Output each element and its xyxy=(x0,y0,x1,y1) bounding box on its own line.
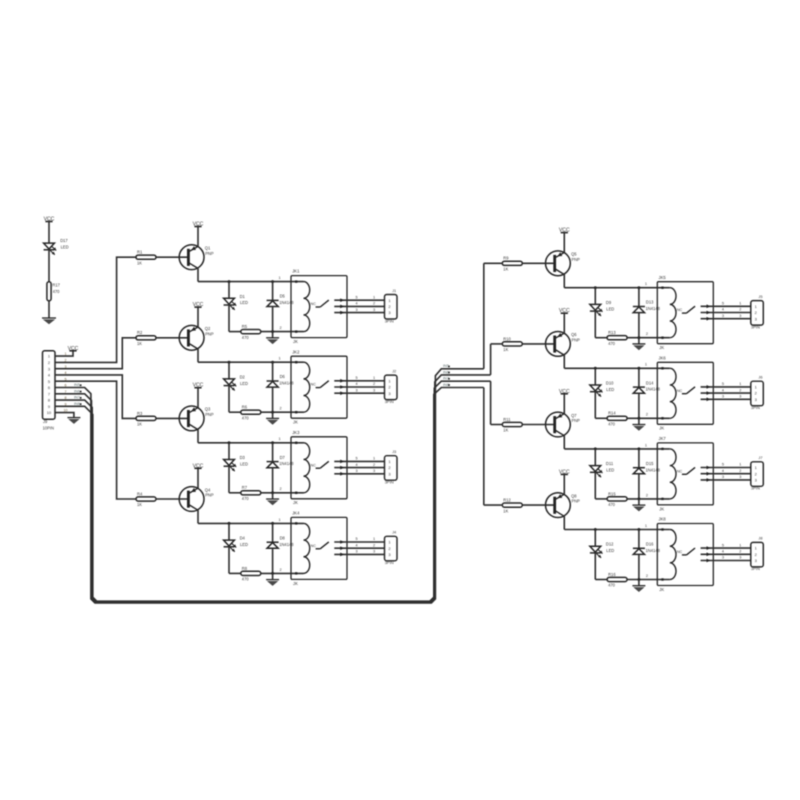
transistor Q3 xyxy=(179,406,204,431)
ground xyxy=(638,580,640,586)
LED D12 xyxy=(594,530,596,547)
wire IN4 xyxy=(55,381,137,499)
resistor R16 xyxy=(595,579,607,581)
relay switch JK3 xyxy=(316,467,321,469)
svg-text:R9: R9 xyxy=(503,256,509,261)
ground xyxy=(272,493,274,499)
wire IN7 bus xyxy=(55,381,491,602)
svg-text:2: 2 xyxy=(280,487,282,491)
wire xyxy=(197,468,199,488)
wire contact xyxy=(701,318,751,320)
svg-text:3: 3 xyxy=(739,395,741,399)
svg-text:PNP: PNP xyxy=(205,251,214,256)
svg-text:2: 2 xyxy=(280,407,282,411)
svg-text:IN5: IN5 xyxy=(443,364,449,368)
wire xyxy=(197,227,199,247)
relay coil JK7 xyxy=(670,449,676,499)
svg-text:470: 470 xyxy=(608,422,616,427)
svg-text:R17: R17 xyxy=(52,282,60,287)
relay coil JK5 xyxy=(670,288,676,338)
pin xyxy=(661,417,663,419)
ground xyxy=(272,412,274,418)
svg-text:1K: 1K xyxy=(137,341,142,346)
svg-text:4: 4 xyxy=(356,302,358,306)
connector J3 xyxy=(385,456,398,481)
node xyxy=(637,417,640,420)
wire contact xyxy=(701,386,751,388)
node xyxy=(637,447,640,450)
svg-text:JK: JK xyxy=(293,500,298,505)
wire xyxy=(156,498,188,500)
wire xyxy=(261,331,304,333)
diode D15 xyxy=(638,449,640,468)
svg-text:3: 3 xyxy=(373,388,375,392)
ground xyxy=(638,338,640,344)
svg-text:1K: 1K xyxy=(503,267,508,272)
svg-text:1K: 1K xyxy=(503,428,508,433)
svg-text:NC: NC xyxy=(311,463,317,467)
svg-text:J9: J9 xyxy=(43,419,48,424)
svg-text:2: 2 xyxy=(739,308,741,312)
svg-text:J2: J2 xyxy=(392,368,396,373)
relay switch JK7 xyxy=(682,473,687,475)
svg-text:3PIN: 3PIN xyxy=(385,318,394,323)
svg-text:J1: J1 xyxy=(392,288,396,293)
svg-text:Q3: Q3 xyxy=(205,407,211,412)
node xyxy=(271,361,274,364)
wire IN7 xyxy=(490,381,492,424)
relay coil JK8 xyxy=(670,530,676,580)
wire xyxy=(48,301,50,318)
svg-text:PNP: PNP xyxy=(572,257,581,262)
svg-text:LED: LED xyxy=(240,542,248,547)
svg-text:R5: R5 xyxy=(242,324,248,329)
pin xyxy=(661,337,663,339)
wire VCC xyxy=(55,351,73,356)
pin xyxy=(661,498,663,500)
relay switch JK1 xyxy=(316,306,321,308)
pin xyxy=(295,361,297,363)
svg-text:J6: J6 xyxy=(758,375,762,380)
svg-text:470: 470 xyxy=(242,335,250,340)
diode D8 xyxy=(272,523,274,542)
wire contact xyxy=(334,473,384,475)
svg-text:JK1: JK1 xyxy=(292,269,300,274)
svg-text:IN8: IN8 xyxy=(443,383,449,387)
svg-text:NC: NC xyxy=(677,308,683,312)
wire contact xyxy=(701,312,751,314)
svg-text:R10: R10 xyxy=(503,336,511,341)
svg-text:R4: R4 xyxy=(137,491,143,496)
svg-text:2: 2 xyxy=(373,302,375,306)
svg-text:5: 5 xyxy=(356,537,358,541)
connector J6 xyxy=(751,381,764,406)
pin xyxy=(295,572,297,574)
svg-text:1N4148: 1N4148 xyxy=(646,467,661,472)
LED D2 xyxy=(228,362,230,379)
wire xyxy=(563,516,565,529)
connector J7 xyxy=(751,462,764,487)
svg-text:D2: D2 xyxy=(240,374,246,379)
diode D7 xyxy=(272,443,274,462)
connector J1 xyxy=(385,295,398,320)
wire contact xyxy=(701,560,751,562)
svg-text:LED: LED xyxy=(240,381,248,386)
svg-text:LED: LED xyxy=(606,468,614,473)
svg-text:1: 1 xyxy=(645,443,647,447)
pin xyxy=(661,287,663,289)
svg-text:R11: R11 xyxy=(503,417,511,422)
svg-text:2: 2 xyxy=(646,413,648,417)
svg-text:R16: R16 xyxy=(608,572,616,577)
ground xyxy=(67,417,80,419)
wire IN5 bus xyxy=(55,369,484,603)
node xyxy=(594,528,597,531)
svg-text:2: 2 xyxy=(646,493,648,497)
wire xyxy=(563,436,565,449)
resistor R7 xyxy=(229,492,241,494)
svg-text:R12: R12 xyxy=(503,498,511,503)
svg-text:D1: D1 xyxy=(240,294,246,299)
node xyxy=(271,441,274,444)
svg-text:4: 4 xyxy=(722,308,724,312)
svg-text:1: 1 xyxy=(739,382,741,386)
wire rail xyxy=(198,281,304,283)
node xyxy=(637,497,640,500)
node xyxy=(228,361,231,364)
svg-text:3: 3 xyxy=(739,314,741,318)
wire xyxy=(563,275,565,288)
connector J4 xyxy=(385,536,398,561)
relay JK8 xyxy=(657,524,713,586)
resistor R4 xyxy=(136,497,156,501)
svg-text:3PIN: 3PIN xyxy=(751,566,760,571)
wire xyxy=(197,307,199,327)
svg-text:IN6: IN6 xyxy=(74,389,80,393)
svg-text:Q8: Q8 xyxy=(571,493,577,498)
svg-text:3: 3 xyxy=(373,550,375,554)
svg-text:3PIN: 3PIN xyxy=(751,324,760,329)
ground xyxy=(272,573,274,579)
wire IN1 xyxy=(55,257,137,362)
svg-text:D17: D17 xyxy=(60,238,68,243)
diode D16 xyxy=(638,530,640,549)
wire xyxy=(197,388,199,408)
wire contact xyxy=(701,392,751,394)
svg-text:D7: D7 xyxy=(280,455,286,460)
svg-text:Q6: Q6 xyxy=(571,332,577,337)
svg-text:1: 1 xyxy=(645,524,647,528)
svg-text:NC: NC xyxy=(677,389,683,393)
pin xyxy=(661,578,663,580)
svg-text:1K: 1K xyxy=(137,422,142,427)
svg-text:3PIN: 3PIN xyxy=(751,405,760,410)
svg-text:Q1: Q1 xyxy=(205,246,211,251)
wire xyxy=(48,222,50,244)
svg-text:3: 3 xyxy=(356,388,358,392)
node xyxy=(228,280,231,283)
svg-text:3: 3 xyxy=(356,308,358,312)
svg-text:R14: R14 xyxy=(608,411,616,416)
svg-text:J8: J8 xyxy=(758,536,762,541)
wire contact xyxy=(701,547,751,549)
svg-text:10PIN: 10PIN xyxy=(43,426,54,431)
svg-text:5: 5 xyxy=(722,543,724,547)
svg-text:5: 5 xyxy=(48,379,50,384)
svg-text:3PIN: 3PIN xyxy=(385,480,394,485)
wire contact xyxy=(334,460,384,462)
svg-text:R3: R3 xyxy=(137,411,143,416)
svg-text:LED: LED xyxy=(240,300,248,305)
node xyxy=(228,522,231,525)
wire xyxy=(627,337,670,339)
wire contact xyxy=(701,305,751,307)
node xyxy=(594,447,597,450)
resistor R2 xyxy=(136,336,156,340)
svg-text:4: 4 xyxy=(722,469,724,473)
svg-text:R1: R1 xyxy=(137,250,143,255)
svg-text:3: 3 xyxy=(739,475,741,479)
svg-text:JK5: JK5 xyxy=(659,275,667,280)
svg-text:1N4148: 1N4148 xyxy=(646,387,661,392)
wire contact xyxy=(701,473,751,475)
wire xyxy=(197,510,199,523)
transistor Q1 xyxy=(179,245,204,270)
svg-text:1K: 1K xyxy=(503,347,508,352)
node xyxy=(271,522,274,525)
wire xyxy=(197,430,199,443)
relay coil JK1 xyxy=(304,282,310,332)
node xyxy=(637,367,640,370)
svg-text:PNP: PNP xyxy=(572,338,581,343)
svg-text:IN7: IN7 xyxy=(74,396,80,400)
resistor R5 xyxy=(229,331,241,333)
resistor R15 xyxy=(595,498,607,500)
svg-text:470: 470 xyxy=(242,496,250,501)
wire IN6 xyxy=(490,344,492,375)
svg-text:1K: 1K xyxy=(137,502,142,507)
svg-text:IN6: IN6 xyxy=(443,370,449,374)
svg-text:3: 3 xyxy=(739,556,741,560)
diode D13 xyxy=(638,288,640,307)
node xyxy=(637,286,640,289)
svg-text:1N4148: 1N4148 xyxy=(279,542,294,547)
pin xyxy=(295,280,297,282)
svg-text:PNP: PNP xyxy=(572,418,581,423)
svg-text:470: 470 xyxy=(608,583,616,588)
wire contact xyxy=(334,392,384,394)
relay JK7 xyxy=(657,443,713,505)
wire xyxy=(563,233,565,253)
svg-text:2: 2 xyxy=(739,469,741,473)
pin xyxy=(295,330,297,332)
wire rail xyxy=(198,522,304,524)
svg-text:JK: JK xyxy=(659,587,664,592)
svg-text:1: 1 xyxy=(373,295,375,299)
diode D6 xyxy=(272,362,274,381)
pin xyxy=(295,522,297,524)
svg-text:Q5: Q5 xyxy=(571,252,577,257)
svg-text:JK: JK xyxy=(659,345,664,350)
svg-text:5: 5 xyxy=(356,376,358,380)
svg-text:D13: D13 xyxy=(646,300,654,305)
node xyxy=(637,578,640,581)
pin xyxy=(661,367,663,369)
relay switch JK5 xyxy=(682,312,687,314)
svg-text:R15: R15 xyxy=(608,491,616,496)
svg-text:1: 1 xyxy=(48,354,50,359)
wire rail xyxy=(564,287,670,289)
svg-text:3: 3 xyxy=(722,475,724,479)
LED D4 xyxy=(228,523,230,540)
wire rail xyxy=(564,529,670,531)
node xyxy=(271,572,274,575)
wire IN8 bus xyxy=(55,388,484,602)
wire IN6 bus xyxy=(55,375,491,603)
LED D17 xyxy=(44,243,55,249)
svg-text:D6: D6 xyxy=(280,374,286,379)
relay coil JK4 xyxy=(304,523,310,573)
svg-text:4: 4 xyxy=(356,543,358,547)
svg-text:2: 2 xyxy=(280,326,282,330)
svg-text:NC: NC xyxy=(311,302,317,306)
ground xyxy=(638,499,640,505)
svg-text:NC: NC xyxy=(311,383,317,387)
svg-text:PNP: PNP xyxy=(205,493,214,498)
svg-text:4: 4 xyxy=(356,463,358,467)
svg-text:8: 8 xyxy=(48,398,50,403)
node xyxy=(594,367,597,370)
svg-text:1N4148: 1N4148 xyxy=(279,461,294,466)
svg-text:R8: R8 xyxy=(242,566,248,571)
svg-text:2: 2 xyxy=(646,332,648,336)
wire contact xyxy=(701,467,751,469)
svg-text:LED: LED xyxy=(606,387,614,392)
svg-text:1: 1 xyxy=(279,276,281,280)
svg-text:D3: D3 xyxy=(240,455,246,460)
svg-text:R7: R7 xyxy=(242,485,248,490)
resistor R12 xyxy=(502,503,522,507)
svg-text:PNP: PNP xyxy=(205,412,214,417)
svg-text:D11: D11 xyxy=(606,461,614,466)
pin xyxy=(295,442,297,444)
wire rail xyxy=(198,361,304,363)
wire xyxy=(484,504,503,506)
svg-text:JK: JK xyxy=(293,420,298,425)
svg-text:3PIN: 3PIN xyxy=(385,560,394,565)
relay switch JK4 xyxy=(316,548,321,550)
wire IN2 xyxy=(55,338,137,369)
wire xyxy=(261,572,304,574)
svg-text:NC: NC xyxy=(677,469,683,473)
wire xyxy=(484,262,503,264)
wire contact xyxy=(334,547,384,549)
svg-text:470: 470 xyxy=(242,577,250,582)
svg-text:1N4148: 1N4148 xyxy=(646,548,661,553)
resistor R8 xyxy=(229,572,241,574)
svg-text:JK: JK xyxy=(659,426,664,431)
svg-text:JK4: JK4 xyxy=(292,511,300,516)
svg-text:R2: R2 xyxy=(137,330,143,335)
transistor Q2 xyxy=(179,325,204,350)
svg-text:2: 2 xyxy=(373,463,375,467)
wire xyxy=(197,268,199,281)
svg-text:D12: D12 xyxy=(606,542,614,547)
ground xyxy=(42,317,56,319)
svg-text:3: 3 xyxy=(356,469,358,473)
svg-text:IN8: IN8 xyxy=(74,402,80,406)
svg-text:1N4148: 1N4148 xyxy=(279,300,294,305)
wire IN3 xyxy=(55,375,137,419)
transistor Q8 xyxy=(546,493,571,518)
svg-text:1: 1 xyxy=(373,537,375,541)
wire xyxy=(563,394,565,414)
LED D10 xyxy=(594,368,596,385)
svg-text:3: 3 xyxy=(48,366,50,371)
svg-text:4: 4 xyxy=(356,382,358,386)
svg-text:9: 9 xyxy=(48,404,50,409)
connector J9 10PIN xyxy=(43,351,56,419)
node xyxy=(637,528,640,531)
svg-text:5: 5 xyxy=(356,457,358,461)
LED D1 xyxy=(228,282,230,299)
node xyxy=(271,280,274,283)
wire xyxy=(627,579,670,581)
svg-text:Q4: Q4 xyxy=(205,487,211,492)
relay JK2 xyxy=(291,356,347,418)
svg-text:JK2: JK2 xyxy=(292,349,300,354)
diode D14 xyxy=(638,368,640,387)
node xyxy=(228,441,231,444)
wire contact xyxy=(701,479,751,481)
wire rail xyxy=(564,448,670,450)
wire contact xyxy=(334,299,384,301)
wire contact xyxy=(334,386,384,388)
svg-text:1N4148: 1N4148 xyxy=(646,306,661,311)
svg-text:2: 2 xyxy=(280,568,282,572)
node xyxy=(271,491,274,494)
relay coil JK2 xyxy=(304,362,310,412)
relay coil JK6 xyxy=(670,368,676,418)
svg-text:470: 470 xyxy=(608,341,616,346)
svg-text:6: 6 xyxy=(48,385,50,390)
wire IN8 xyxy=(483,388,485,506)
LED D11 xyxy=(594,449,596,466)
svg-text:3PIN: 3PIN xyxy=(385,399,394,404)
svg-text:R13: R13 xyxy=(608,330,616,335)
svg-text:1: 1 xyxy=(279,437,281,441)
LED D9 xyxy=(594,288,596,305)
relay JK6 xyxy=(657,362,713,424)
svg-text:5: 5 xyxy=(722,302,724,306)
svg-text:470: 470 xyxy=(242,415,250,420)
wire contact xyxy=(334,380,384,382)
svg-text:JK: JK xyxy=(659,506,664,511)
wire contact xyxy=(334,553,384,555)
svg-text:5: 5 xyxy=(722,382,724,386)
svg-text:3: 3 xyxy=(356,550,358,554)
svg-text:J5: J5 xyxy=(758,294,762,299)
svg-text:7: 7 xyxy=(48,391,50,396)
node xyxy=(594,286,597,289)
svg-text:D16: D16 xyxy=(646,542,654,547)
svg-text:JK3: JK3 xyxy=(292,430,300,435)
svg-text:JK: JK xyxy=(293,581,298,586)
svg-text:D8: D8 xyxy=(280,535,286,540)
diode D5 xyxy=(272,282,274,301)
wire xyxy=(522,424,554,426)
svg-text:2: 2 xyxy=(48,360,50,365)
